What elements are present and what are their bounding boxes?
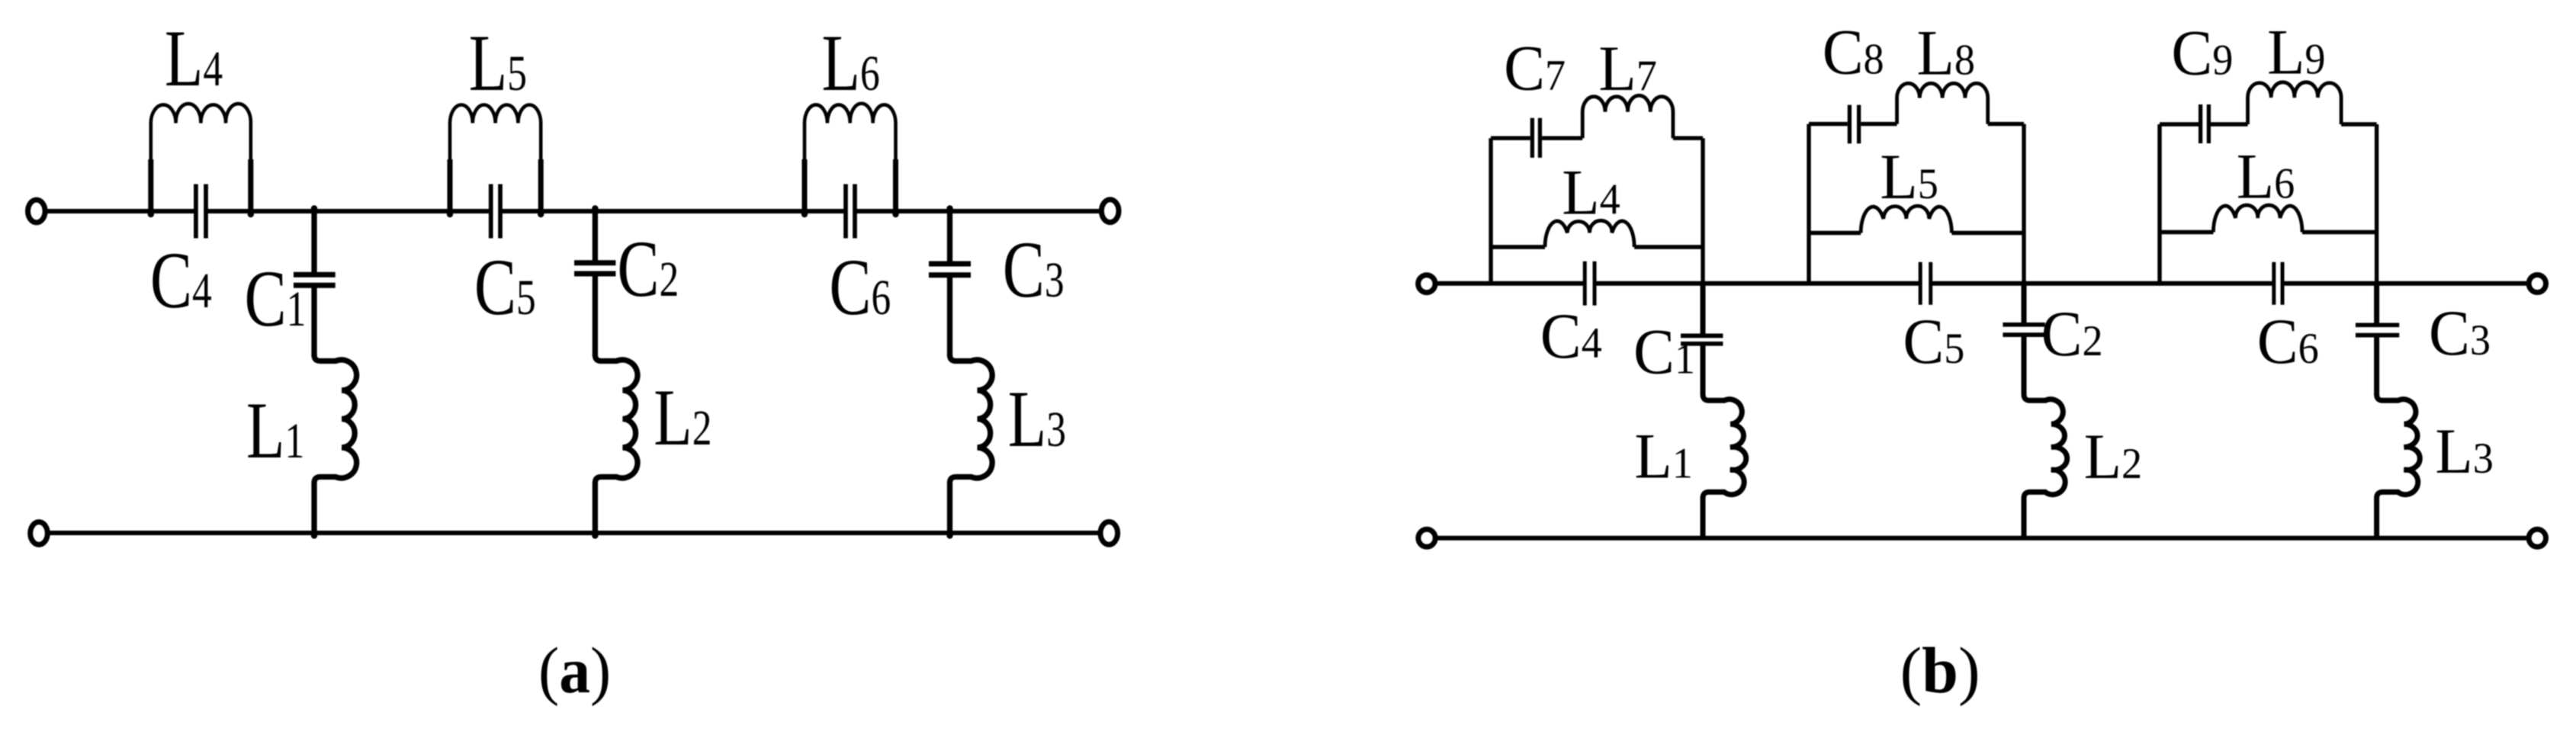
wire block2 top branch seg2 xyxy=(1861,122,1897,126)
svg-text:C3: C3 xyxy=(2429,297,2491,368)
inductor L4 coil (b) xyxy=(1545,220,1634,247)
inductor L6 coil (b) xyxy=(2213,205,2302,232)
wire C1-L1 lead (b) xyxy=(1701,346,1706,396)
inductor L4 right lead xyxy=(248,159,253,211)
wire C1 to L1 lead xyxy=(311,287,316,356)
wire C3-L3 lead (b) xyxy=(2374,338,2379,396)
capacitor C4 plates (b) xyxy=(1583,262,1587,306)
wire block2 right vertical (b) xyxy=(2022,124,2025,284)
capacitor C1 plates (b) xyxy=(1681,334,1723,339)
svg-text:L1: L1 xyxy=(1634,420,1692,492)
inductor L9 coil xyxy=(2248,82,2342,124)
wire top rail (b) seg1 xyxy=(1435,281,1585,286)
wire top rail (b) seg3 xyxy=(1931,281,2274,286)
capacitor C6 plates (b) xyxy=(2272,262,2276,305)
capacitor C2 plates (b) xyxy=(2003,322,2044,327)
svg-text:L1: L1 xyxy=(246,385,304,475)
wire shunt2 upper lead (b) xyxy=(2022,284,2027,322)
inductor L7 coil xyxy=(1582,95,1673,138)
svg-text:C4: C4 xyxy=(1540,300,1602,371)
wire shunt 1 upper lead (a) xyxy=(311,211,316,272)
inductor L5 coil (b) xyxy=(1861,206,1951,233)
wire block1 middle branch seg2 xyxy=(1634,245,1703,249)
svg-text:L4: L4 xyxy=(165,13,223,103)
svg-text:L8: L8 xyxy=(1917,17,1975,88)
wire C2-L2 lead (b) xyxy=(2022,337,2027,395)
wire shunt3 upper lead (b) xyxy=(2374,284,2379,323)
inductor L4 coil xyxy=(151,104,251,211)
circuit (b) output terminal bottom-right xyxy=(2529,529,2545,547)
inductor L8 coil xyxy=(1897,83,1988,124)
wire bottom rail (a) xyxy=(47,531,1100,535)
wire block3 top branch seg3 xyxy=(2341,122,2377,126)
inductor L1 coil (b) xyxy=(1703,393,1746,538)
wire block1 right vertical (b) xyxy=(1701,138,1704,284)
inductor L3 coil (b) xyxy=(2377,393,2420,538)
capacitor C7 plates xyxy=(1531,118,1534,158)
svg-text:C2: C2 xyxy=(617,223,679,313)
circuit (a) output terminal bottom-right xyxy=(1100,521,1118,544)
capacitor C3 plates (b) xyxy=(2356,322,2399,327)
wire block2 middle branch seg1 xyxy=(1809,231,1861,235)
inductor L5 coil xyxy=(450,104,541,211)
wire block2 left vertical (b) xyxy=(1807,124,1810,284)
capacitor C5 plates (b) xyxy=(1919,262,1922,305)
capacitor C8 plates xyxy=(1848,105,1852,144)
wire block3 middle branch seg2 xyxy=(2302,230,2377,234)
svg-text:C8: C8 xyxy=(1823,16,1884,88)
circuit (a) input terminal top-left xyxy=(28,200,46,223)
capacitor C3 plates xyxy=(929,262,971,267)
wire C3 to L3 lead xyxy=(947,278,952,356)
inductor L3 coil xyxy=(950,355,993,533)
wire shunt 3 upper lead (a) xyxy=(947,211,952,262)
wire C2 to L2 lead xyxy=(593,276,598,356)
inductor L6 right lead xyxy=(893,159,898,211)
wire block3 middle branch seg1 xyxy=(2160,230,2213,234)
svg-text:(a): (a) xyxy=(538,634,611,707)
svg-text:C6: C6 xyxy=(2257,305,2319,377)
svg-text:C7: C7 xyxy=(1504,32,1566,104)
wire block3 top branch seg2 xyxy=(2211,122,2248,126)
wire block3 right vertical (b) xyxy=(2375,124,2378,284)
inductor L5 left lead xyxy=(448,159,453,211)
wire block1 top branch seg3 xyxy=(1673,136,1703,140)
svg-text:L4: L4 xyxy=(1562,156,1620,228)
wire block1 top branch seg1 xyxy=(1491,136,1531,140)
circuit (b) input terminal bottom-left xyxy=(1418,529,1435,547)
inductor L6 coil xyxy=(805,104,896,211)
circuit (a) input terminal bottom-left xyxy=(31,522,48,545)
capacitor C9 plates xyxy=(2199,104,2202,143)
svg-text:L6: L6 xyxy=(822,18,880,107)
svg-text:L7: L7 xyxy=(1598,32,1656,104)
wire block2 middle branch seg2 xyxy=(1951,231,2024,235)
svg-text:C5: C5 xyxy=(474,242,536,332)
svg-text:L2: L2 xyxy=(654,372,711,462)
svg-text:C1: C1 xyxy=(245,253,307,343)
svg-text:C1: C1 xyxy=(1633,316,1695,387)
inductor L5 right lead xyxy=(538,159,544,211)
svg-text:(b): (b) xyxy=(1900,634,1980,707)
svg-text:L5: L5 xyxy=(1880,140,1938,212)
node junction dots (a) xyxy=(148,211,154,217)
capacitor C1 plates xyxy=(294,272,336,278)
capacitor C6 plates xyxy=(843,184,848,239)
inductor L4 left lead xyxy=(148,159,153,211)
inductor L2 coil (b) xyxy=(2024,393,2067,538)
wire shunt1 upper lead (b) xyxy=(1701,284,1706,334)
wire top rail (a) seg3 xyxy=(500,209,846,213)
capacitor C5 plates xyxy=(489,184,493,239)
wire block1 middle branch seg1 xyxy=(1491,245,1545,249)
circuit (a) output terminal top-right xyxy=(1101,200,1119,223)
wire block2 top branch seg1 xyxy=(1809,122,1848,126)
svg-text:C9: C9 xyxy=(2171,17,2233,88)
inductor L2 coil xyxy=(595,355,638,533)
svg-text:C6: C6 xyxy=(829,242,891,332)
svg-text:L5: L5 xyxy=(469,18,527,107)
circuit (b) output terminal top-right xyxy=(2529,275,2545,293)
circuit (b) input terminal top-left xyxy=(1418,275,1435,293)
wire block3 left vertical (b) xyxy=(2157,124,2161,284)
inductor L1 coil xyxy=(314,355,357,533)
wire block1 top branch seg2 xyxy=(1542,136,1582,140)
wire top rail (a) seg2 xyxy=(206,209,491,213)
svg-text:L3: L3 xyxy=(2435,415,2493,486)
svg-text:L9: L9 xyxy=(2267,16,2325,88)
svg-text:C2: C2 xyxy=(2041,297,2103,369)
svg-text:C5: C5 xyxy=(1903,305,1964,377)
capacitor C4 plates xyxy=(194,184,198,239)
wire block1 left vertical (b) xyxy=(1489,138,1492,284)
inductor L6 left lead xyxy=(802,159,808,211)
wire block3 top branch seg1 xyxy=(2160,122,2199,126)
svg-text:L6: L6 xyxy=(2237,140,2295,212)
svg-text:L2: L2 xyxy=(2084,420,2142,492)
svg-text:C3: C3 xyxy=(1003,224,1065,314)
wire block2 top branch seg3 xyxy=(1988,122,2024,126)
wire bottom rail (b) xyxy=(1435,536,2529,541)
svg-text:L3: L3 xyxy=(1008,374,1066,464)
svg-text:C4: C4 xyxy=(150,235,212,325)
wire top rail (b) seg2 xyxy=(1595,281,1920,286)
wire top rail (b) seg4 xyxy=(2282,281,2529,286)
wire shunt 2 upper lead (a) xyxy=(593,211,598,261)
capacitor C2 plates xyxy=(574,260,615,265)
wire top rail (a) seg4 xyxy=(855,209,1101,213)
wire top rail (a) seg1 xyxy=(45,209,196,213)
